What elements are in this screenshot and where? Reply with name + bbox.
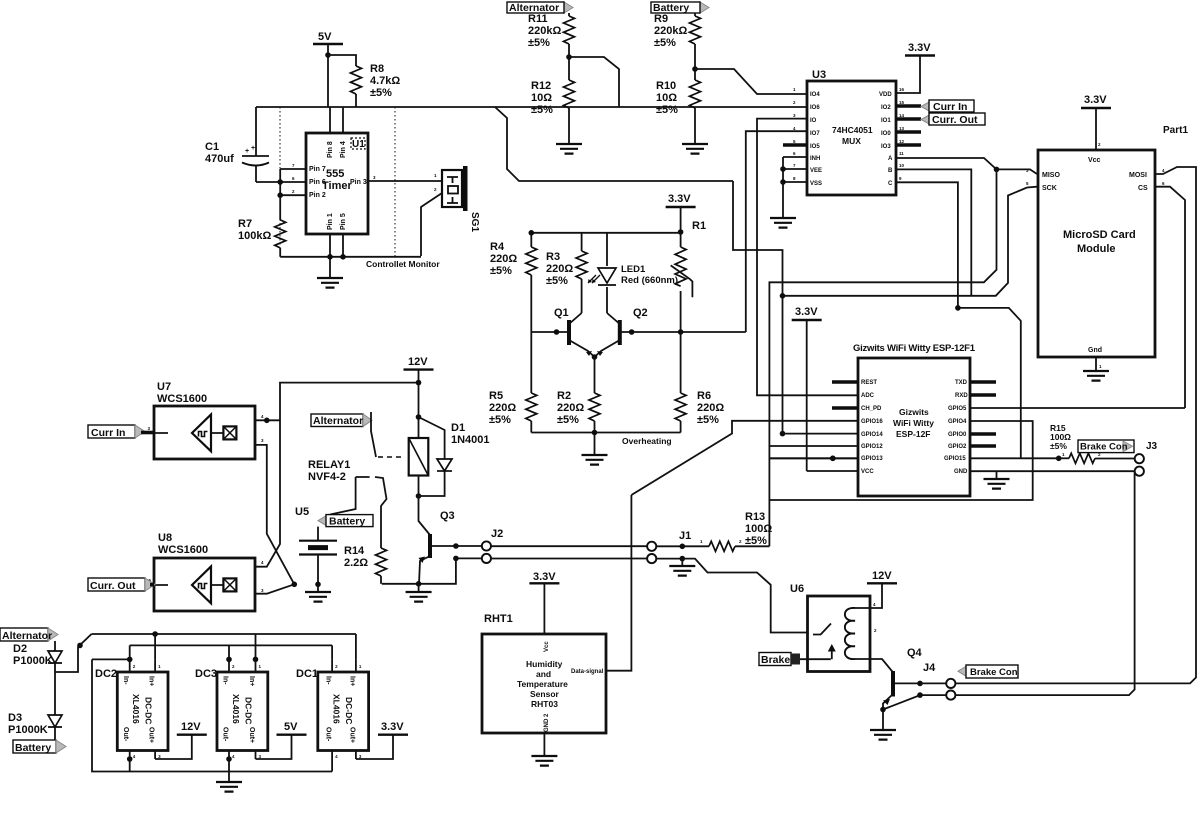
- svg-text:Overheating: Overheating: [622, 436, 672, 446]
- svg-text:DC3: DC3: [195, 668, 217, 680]
- svg-text:R10: R10: [656, 80, 676, 92]
- svg-text:VSS: VSS: [810, 181, 822, 187]
- svg-text:Battery: Battery: [15, 742, 51, 754]
- svg-text:A: A: [888, 156, 893, 162]
- svg-text:R5: R5: [489, 390, 503, 402]
- svg-text:5V: 5V: [318, 31, 332, 43]
- svg-text:Alternator: Alternator: [313, 415, 363, 427]
- svg-text:555: 555: [326, 168, 344, 180]
- svg-text:Pin 2: Pin 2: [309, 192, 326, 199]
- svg-text:IO0: IO0: [881, 131, 891, 137]
- svg-text:GPIO4: GPIO4: [948, 419, 967, 425]
- svg-text:±5%: ±5%: [531, 104, 553, 116]
- svg-text:IO6: IO6: [810, 105, 820, 111]
- svg-text:WCS1600: WCS1600: [157, 393, 207, 405]
- svg-text:14: 14: [899, 113, 905, 118]
- svg-text:±5%: ±5%: [1050, 441, 1067, 451]
- svg-text:±5%: ±5%: [546, 275, 568, 287]
- svg-text:Module: Module: [1077, 243, 1116, 255]
- svg-text:In+: In+: [348, 676, 355, 686]
- svg-text:Q3: Q3: [440, 510, 455, 522]
- svg-text:11: 11: [899, 151, 904, 156]
- svg-text:SCK: SCK: [1042, 185, 1057, 192]
- svg-text:Pin 1: Pin 1: [327, 213, 334, 230]
- svg-text:IO1: IO1: [881, 118, 891, 124]
- svg-text:Out+: Out+: [248, 727, 255, 743]
- svg-text:GPIO13: GPIO13: [861, 456, 883, 462]
- svg-text:Battery: Battery: [329, 516, 365, 528]
- svg-text:MicroSD Card: MicroSD Card: [1063, 229, 1136, 241]
- svg-text:Pin 6: Pin 6: [309, 179, 326, 186]
- svg-text:In-: In-: [324, 676, 331, 685]
- svg-text:±5%: ±5%: [745, 535, 767, 547]
- svg-text:Curr. Out: Curr. Out: [90, 580, 136, 592]
- svg-text:GND: GND: [954, 469, 968, 475]
- svg-text:Gnd: Gnd: [1088, 347, 1102, 354]
- svg-text:IO5: IO5: [810, 144, 820, 150]
- svg-text:Out-: Out-: [324, 727, 331, 742]
- svg-text:Pin 5: Pin 5: [340, 213, 347, 230]
- svg-text:220Ω: 220Ω: [490, 253, 517, 265]
- svg-text:3.3V: 3.3V: [795, 306, 818, 318]
- svg-text:R3: R3: [546, 251, 560, 263]
- svg-text:Brake Con: Brake Con: [970, 667, 1018, 678]
- svg-text:10Ω: 10Ω: [656, 92, 677, 104]
- svg-text:Out-: Out-: [221, 727, 228, 742]
- svg-text:4.7kΩ: 4.7kΩ: [370, 75, 400, 87]
- svg-text:220kΩ: 220kΩ: [654, 25, 687, 37]
- svg-text:Gizwits WiFi Witty ESP-12F1: Gizwits WiFi Witty ESP-12F1: [853, 343, 976, 354]
- svg-text:Brake Con: Brake Con: [1080, 442, 1128, 453]
- svg-text:R2: R2: [557, 390, 571, 402]
- svg-text:13: 13: [899, 126, 905, 131]
- svg-text:Curr In: Curr In: [933, 101, 967, 113]
- svg-text:RHT1: RHT1: [484, 613, 513, 625]
- svg-text:GPIO16: GPIO16: [861, 419, 883, 425]
- svg-text:Curr. Out: Curr. Out: [932, 114, 978, 126]
- svg-text:2.2Ω: 2.2Ω: [344, 557, 368, 569]
- svg-text:Q4: Q4: [907, 647, 923, 659]
- svg-text:3.3V: 3.3V: [908, 42, 931, 54]
- svg-text:In-: In-: [122, 676, 129, 685]
- svg-text:Out-: Out-: [122, 727, 129, 742]
- svg-text:Vcc: Vcc: [1088, 157, 1101, 164]
- svg-text:R4: R4: [490, 241, 505, 253]
- svg-text:GPIO0: GPIO0: [948, 432, 967, 438]
- svg-text:In-: In-: [221, 676, 228, 685]
- svg-text:WiFi Witty: WiFi Witty: [893, 418, 934, 428]
- svg-text:Pin 7: Pin 7: [309, 166, 326, 173]
- svg-text:Red (660nm): Red (660nm): [621, 275, 678, 286]
- svg-text:GPIO12: GPIO12: [861, 444, 883, 450]
- svg-text:In+: In+: [248, 676, 255, 686]
- svg-text:RHT03: RHT03: [531, 699, 558, 709]
- svg-text:Out+: Out+: [348, 727, 355, 743]
- svg-text:CS: CS: [1138, 185, 1148, 192]
- svg-text:VDD: VDD: [879, 92, 892, 98]
- svg-text:DC-DC: DC-DC: [243, 697, 253, 724]
- svg-text:12: 12: [899, 139, 905, 144]
- svg-text:DC2: DC2: [95, 668, 117, 680]
- svg-text:R8: R8: [370, 63, 384, 75]
- svg-text:SG1: SG1: [469, 212, 480, 232]
- svg-text:MOSI: MOSI: [1129, 172, 1147, 179]
- svg-text:D2: D2: [13, 643, 27, 655]
- svg-text:R7: R7: [238, 218, 252, 230]
- svg-text:Pin 4: Pin 4: [340, 141, 347, 158]
- svg-text:INH: INH: [810, 156, 820, 162]
- svg-text:Vcc: Vcc: [544, 641, 550, 652]
- svg-text:MUX: MUX: [842, 136, 861, 146]
- svg-text:±5%: ±5%: [557, 414, 579, 426]
- svg-text:XL4016: XL4016: [131, 694, 141, 724]
- svg-text:Controllet Monitor: Controllet Monitor: [366, 259, 440, 269]
- svg-text:100Ω: 100Ω: [745, 523, 772, 535]
- svg-text:5V: 5V: [284, 721, 298, 733]
- svg-text:±5%: ±5%: [490, 265, 512, 277]
- svg-text:Curr In: Curr In: [91, 427, 125, 439]
- svg-text:IO7: IO7: [810, 131, 820, 137]
- svg-text:Brake: Brake: [761, 654, 790, 666]
- svg-text:R13: R13: [745, 511, 765, 523]
- svg-text:+: +: [245, 148, 249, 155]
- svg-text:Q2: Q2: [633, 307, 648, 319]
- svg-text:+: +: [251, 145, 255, 152]
- svg-text:VEE: VEE: [810, 168, 822, 174]
- svg-text:IO3: IO3: [881, 144, 891, 150]
- svg-text:U6: U6: [790, 583, 804, 595]
- svg-text:R1: R1: [692, 220, 706, 232]
- svg-text:R12: R12: [531, 80, 551, 92]
- svg-text:GND 2: GND 2: [544, 713, 550, 732]
- svg-text:Alternator: Alternator: [2, 630, 52, 642]
- svg-text:C1: C1: [205, 141, 219, 153]
- svg-text:±5%: ±5%: [489, 414, 511, 426]
- svg-text:R9: R9: [654, 13, 668, 25]
- svg-text:MISO: MISO: [1042, 172, 1060, 179]
- svg-text:Pin 3: Pin 3: [350, 179, 367, 186]
- svg-text:220Ω: 220Ω: [489, 402, 516, 414]
- svg-text:220Ω: 220Ω: [546, 263, 573, 275]
- svg-text:GPIO2: GPIO2: [948, 444, 967, 450]
- svg-text:CH_PD: CH_PD: [861, 406, 882, 412]
- svg-text:ESP-12F: ESP-12F: [896, 429, 931, 439]
- svg-text:P1000K: P1000K: [8, 724, 48, 736]
- svg-text:GPIO14: GPIO14: [861, 432, 883, 438]
- svg-text:XL4016: XL4016: [332, 694, 342, 724]
- svg-text:Data-signal: Data-signal: [571, 669, 604, 675]
- svg-text:±5%: ±5%: [656, 104, 678, 116]
- svg-text:IO2: IO2: [881, 105, 891, 111]
- svg-text:B: B: [888, 168, 893, 174]
- svg-text:3.3V: 3.3V: [533, 571, 556, 583]
- svg-text:WCS1600: WCS1600: [158, 544, 208, 556]
- svg-text:J3: J3: [1146, 441, 1158, 452]
- svg-text:Pin 8: Pin 8: [327, 141, 334, 158]
- svg-text:RXD: RXD: [955, 393, 968, 399]
- svg-text:R6: R6: [697, 390, 711, 402]
- svg-text:R11: R11: [528, 13, 548, 25]
- svg-text:DC-DC: DC-DC: [344, 697, 354, 724]
- svg-text:15: 15: [899, 100, 905, 105]
- svg-text:Gizwits: Gizwits: [899, 407, 929, 417]
- svg-text:Part1: Part1: [1163, 125, 1188, 136]
- svg-text:74HC4051: 74HC4051: [832, 125, 873, 135]
- svg-text:Sensor: Sensor: [530, 689, 560, 699]
- svg-text:P1000K: P1000K: [13, 655, 53, 667]
- svg-text:GPIO15: GPIO15: [944, 456, 966, 462]
- svg-text:470uf: 470uf: [205, 153, 234, 165]
- svg-text:U5: U5: [295, 506, 309, 518]
- svg-text:In+: In+: [148, 676, 155, 686]
- svg-text:GPIO5: GPIO5: [948, 406, 967, 412]
- svg-text:220kΩ: 220kΩ: [528, 25, 561, 37]
- svg-text:1N4001: 1N4001: [451, 434, 490, 446]
- svg-text:±5%: ±5%: [528, 37, 550, 49]
- svg-text:U1: U1: [352, 139, 365, 150]
- svg-text:TXD: TXD: [955, 380, 968, 386]
- svg-text:ADC: ADC: [861, 393, 875, 399]
- svg-text:U3: U3: [812, 69, 826, 81]
- svg-text:3.3V: 3.3V: [668, 193, 691, 205]
- svg-text:U7: U7: [157, 381, 171, 393]
- svg-text:D1: D1: [451, 422, 465, 434]
- svg-text:IO4: IO4: [810, 92, 820, 98]
- svg-text:3.3V: 3.3V: [381, 721, 404, 733]
- svg-text:DC-DC: DC-DC: [144, 697, 154, 724]
- svg-text:REST: REST: [861, 380, 877, 386]
- svg-text:and: and: [536, 669, 551, 679]
- svg-text:Temperature: Temperature: [517, 679, 568, 689]
- svg-text:220Ω: 220Ω: [697, 402, 724, 414]
- svg-text:J2: J2: [491, 528, 503, 540]
- svg-text:XL4016: XL4016: [231, 694, 241, 724]
- svg-text:D3: D3: [8, 712, 22, 724]
- svg-text:12V: 12V: [872, 570, 892, 582]
- svg-text:R14: R14: [344, 545, 365, 557]
- svg-text:LED1: LED1: [621, 264, 646, 275]
- svg-text:10Ω: 10Ω: [531, 92, 552, 104]
- svg-text:Timer: Timer: [322, 180, 352, 192]
- svg-text:220Ω: 220Ω: [557, 402, 584, 414]
- svg-text:10: 10: [899, 163, 905, 168]
- svg-text:100kΩ: 100kΩ: [238, 230, 271, 242]
- svg-text:16: 16: [899, 87, 905, 92]
- svg-text:±5%: ±5%: [654, 37, 676, 49]
- svg-text:12V: 12V: [408, 356, 428, 368]
- svg-text:J1: J1: [679, 530, 691, 542]
- svg-text:RELAY1: RELAY1: [308, 459, 350, 471]
- svg-text:NVF4-2: NVF4-2: [308, 471, 346, 483]
- svg-text:12V: 12V: [181, 721, 201, 733]
- svg-text:VCC: VCC: [861, 469, 874, 475]
- svg-text:3.3V: 3.3V: [1084, 94, 1107, 106]
- svg-text:U8: U8: [158, 532, 172, 544]
- svg-text:±5%: ±5%: [370, 87, 392, 99]
- svg-text:J4: J4: [923, 662, 936, 674]
- svg-text:C: C: [888, 181, 893, 187]
- svg-text:IO: IO: [810, 118, 817, 124]
- svg-text:Out+: Out+: [148, 727, 155, 743]
- svg-text:±5%: ±5%: [697, 414, 719, 426]
- svg-text:Q1: Q1: [554, 307, 569, 319]
- svg-text:DC1: DC1: [296, 668, 318, 680]
- svg-text:Humidity: Humidity: [526, 659, 563, 669]
